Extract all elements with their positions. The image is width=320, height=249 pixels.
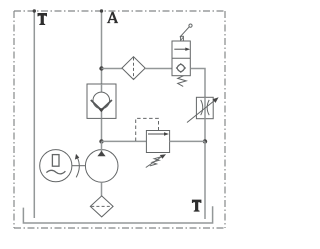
pump P1 (circle with outlet triangle) [85,141,118,182]
arrow in top position [174,48,188,50]
wire: pump suction line [101,182,103,196]
wire: throttle valve down to T junction [204,119,206,142]
node: T line at boundary [33,9,36,12]
check valve V1 (on A line) [87,84,116,118]
wire: relief valve to right junction [170,140,205,142]
spring (return) of shut-off valve [178,76,187,87]
coupling / shaft with rotation arrow [72,154,86,178]
port label A (top) [107,12,118,23]
throttle valve (adjustable restrictor) [187,97,219,122]
wire: shut-off valve to throttle valve (corner) [190,69,205,98]
wire: junction down to tank [204,141,206,219]
check symbol in bottom position: circle in diamond seat [177,65,184,72]
port label T (top left) [38,13,48,25]
port label T (bottom right) [192,200,202,212]
node: A line at boundary [100,9,103,12]
wire: pump outlet to relief valve [102,140,147,142]
wire: A pressure line (vertical from top boundary to pump junction) [101,11,103,141]
tank (reservoir open box) [23,206,212,223]
relief valve (box with arrow) [146,131,169,153]
wire: filter to shut-off valve [145,68,172,70]
spring with adjusting arrow of relief valve [146,154,166,167]
electric motor M1 [40,150,72,182]
lever actuator of shut-off valve [180,24,192,41]
wire: junction to return filter [102,68,122,70]
node: junction at pump outlet [99,139,103,143]
shut-off valve (lever operated 2-position valve) [172,41,190,76]
node: junction relief output / throttle / tank line [203,139,207,143]
enclosure boundary (dash-dot frame) [14,11,225,228]
pilot line (dashed) to relief valve [136,118,159,141]
filter F1 (return line filter diamond) [122,57,145,80]
node: junction of A line and filter branch [99,66,103,70]
suction strainer (diamond with dashed element) [90,196,113,217]
wire: T return line (left vertical) [33,11,35,218]
